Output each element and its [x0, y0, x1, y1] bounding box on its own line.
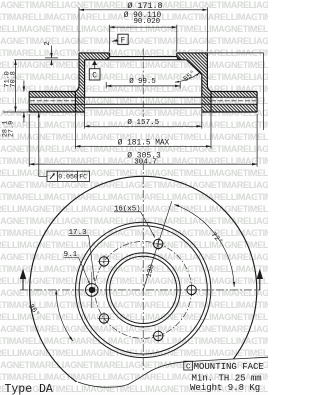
- hat wall right cut: [187, 60, 212, 112]
- svg-text:0.050: 0.050: [58, 174, 78, 181]
- dim 2 step: [45, 57, 58, 59]
- band top plate left cut: [29, 92, 75, 98]
- 72 deg arc: [174, 204, 234, 286]
- datum C symbol: [94, 65, 96, 69]
- dim Ø99.5: [106, 85, 180, 87]
- hidden inner edge: [85, 107, 202, 109]
- band top plate right cut: [211, 92, 257, 98]
- svg-text:Ø 171.8: Ø 171.8: [127, 1, 162, 11]
- svg-text:C: C: [186, 363, 191, 371]
- band outline: [29, 92, 257, 113]
- svg-text:MOUNTING FACE: MOUNTING FACE: [194, 362, 264, 372]
- hat wall left cut: [75, 60, 84, 112]
- datum F leader: [112, 40, 118, 41]
- hat circle Ø171.8: [79, 226, 207, 354]
- mounting face edges: [85, 57, 187, 60]
- svg-text:17.3: 17.3: [69, 229, 88, 237]
- axis centerline top view: [142, 49, 144, 178]
- leader 16(x5): [114, 212, 155, 238]
- outer circle Ø305.3: [30, 176, 257, 395]
- dim 71.0/70.8: [15, 60, 17, 112]
- runout FCF box: [47, 171, 90, 181]
- svg-text:Ø 99.5: Ø 99.5: [129, 77, 156, 86]
- svg-text:Type DA: Type DA: [5, 383, 53, 395]
- svg-text:Ø 181.5 MAX: Ø 181.5 MAX: [118, 139, 170, 148]
- band bottom plate left cut: [29, 104, 75, 112]
- band inner edges: [75, 92, 211, 113]
- leader 9.1: [64, 258, 90, 285]
- svg-text:F: F: [121, 38, 126, 46]
- 55 deg arc: [175, 73, 200, 83]
- 36 deg arc: [56, 290, 73, 341]
- svg-text:Ø 157.5: Ø 157.5: [127, 118, 159, 127]
- svg-text:90.020: 90.020: [133, 18, 160, 26]
- dim Ø181.5 MAX: [75, 145, 211, 147]
- bolt circle radial 130: [143, 201, 172, 290]
- svg-text:FC: FC: [79, 174, 87, 181]
- svg-text:9.1: 9.1: [64, 251, 78, 259]
- note datum C box: [184, 361, 193, 370]
- svg-text:Weight 9.8 Kg: Weight 9.8 Kg: [190, 383, 260, 393]
- bolt circle Ø130: [95, 242, 192, 339]
- bore circle Ø90: [110, 256, 177, 323]
- band inner circle Ø181.5: [76, 222, 211, 357]
- dim Ø90.110/90.020: [110, 26, 177, 28]
- svg-text:27.9: 27.9: [8, 121, 16, 137]
- torn paper edge: [78, 357, 268, 387]
- dim Ø157.5: [85, 125, 202, 127]
- hat flange left cut: [79, 53, 110, 60]
- leader 17.3: [69, 235, 95, 281]
- counterbore circle Ø99.5: [106, 253, 180, 327]
- datum F symbol: [118, 34, 128, 44]
- svg-text:304.7: 304.7: [134, 158, 157, 166]
- svg-text:Min. TH 25 mm: Min. TH 25 mm: [192, 373, 262, 383]
- set screw hole: [86, 284, 99, 297]
- band bottom plate right cut: [211, 104, 257, 112]
- bolt holes: [99, 239, 196, 340]
- right reference lines: [207, 53, 263, 130]
- vane centerlines in vent: [30, 100, 256, 102]
- svg-text:2: 2: [44, 41, 52, 45]
- svg-text:16(x5): 16(x5): [114, 205, 141, 213]
- dim Ø305.3/304.7: [29, 163, 257, 165]
- centerlines front view: [20, 289, 260, 291]
- svg-text:70.8: 70.8: [9, 71, 17, 87]
- section plane arrow left: [22, 279, 24, 290]
- hat wall edges: [75, 53, 211, 97]
- hat flange right cut: [177, 53, 208, 60]
- bore Ø90 edges: [106, 53, 180, 60]
- 55 deg chamfer: [187, 60, 202, 75]
- runout FCF leader: [39, 112, 47, 176]
- vent slot edges: [29, 97, 257, 104]
- section plane arrow right: [259, 279, 261, 290]
- svg-text:C: C: [92, 73, 97, 81]
- dim Ø171.8: [79, 9, 207, 11]
- flange top edges: [79, 52, 207, 54]
- dim 28.1/27.9: [23, 81, 25, 92]
